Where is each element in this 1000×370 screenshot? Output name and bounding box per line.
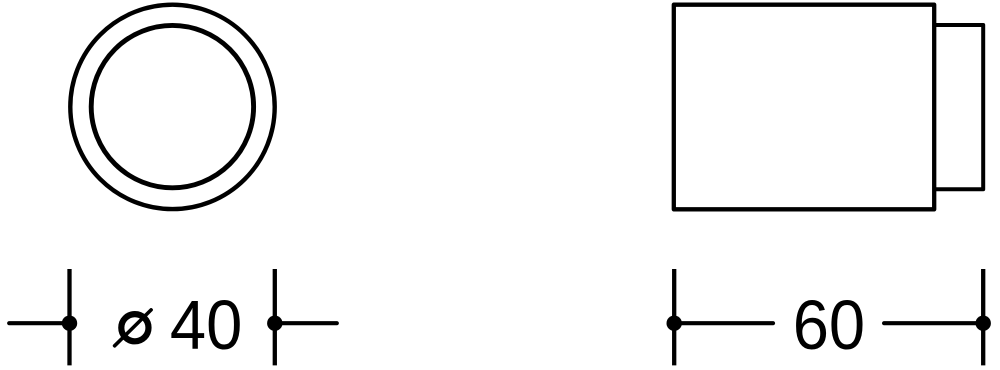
svg-text:60: 60 bbox=[793, 287, 865, 365]
svg-text:40: 40 bbox=[170, 287, 242, 365]
